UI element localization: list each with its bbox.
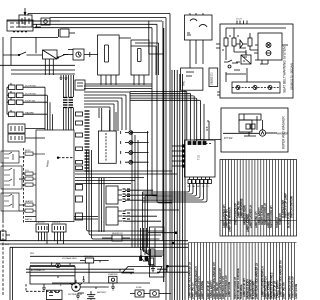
wire drop band <box>189 243 295 300</box>
wire relay drops <box>0 65 75 75</box>
wire lower mid <box>26 266 188 283</box>
svg-text:STARTER: STARTER <box>108 273 118 276</box>
connector C16 <box>25 209 36 212</box>
wire panelA internal <box>226 28 288 82</box>
indicator lamp L2 <box>125 141 149 145</box>
wire short drops center <box>141 228 156 254</box>
fusible link box <box>7 20 33 32</box>
relay K2 <box>241 55 251 64</box>
svg-text:DOOR SW: DOOR SW <box>25 86 37 88</box>
svg-text:DOOR SW: DOOR SW <box>25 94 37 96</box>
seat belt switch S3 <box>224 60 238 68</box>
svg-text:SWITCH DOOR RH: SWITCH DOOR RH <box>270 205 273 228</box>
svg-text:EARTH: EARTH <box>25 218 32 221</box>
switch row stop lamp <box>7 98 47 105</box>
svg-text:VOLTAGE REG: VOLTAGE REG <box>62 257 77 260</box>
connector table band <box>220 160 297 237</box>
connector C15 <box>25 203 36 206</box>
svg-text:MAIN: MAIN <box>45 160 50 167</box>
svg-text:BATTERY: BATTERY <box>97 291 107 294</box>
junction lower <box>167 265 169 267</box>
resistor R1 <box>224 33 228 52</box>
wiper switch unit <box>1 151 19 163</box>
stamp box SE3171 <box>209 68 218 87</box>
combination switch unit <box>1 166 22 189</box>
wire fuse out <box>11 29 59 65</box>
connector C14 <box>25 183 36 186</box>
wire ticks engine <box>58 261 131 290</box>
svg-text:IGN COIL: IGN COIL <box>84 256 94 258</box>
wire ignition feed <box>33 21 60 27</box>
tick marks panelA <box>230 35 268 64</box>
wire meter drops <box>190 40 203 68</box>
alternator box <box>30 267 75 285</box>
combination meter box <box>185 13 213 40</box>
label engine parts <box>5 233 142 296</box>
connector pin field <box>63 98 73 108</box>
svg-text:SE(B)3171: SE(B)3171 <box>210 72 214 85</box>
turn flasher unit F1 <box>106 186 122 204</box>
svg-text:SWITCH IGNITION: SWITCH IGNITION <box>291 196 294 218</box>
switch row door LH <box>7 83 45 90</box>
wire clock <box>63 50 98 58</box>
panel A top pins <box>236 19 247 25</box>
svg-text:SE(B)3172- SEDAN: SE(B)3172- SEDAN <box>290 63 294 90</box>
temp gauge unit G2 <box>119 38 149 85</box>
wire corner cluster <box>131 21 164 76</box>
antenna trapezoid <box>122 267 162 274</box>
horn H1 <box>144 258 154 265</box>
connector block CL2 <box>8 134 45 142</box>
connector row under TSI <box>188 177 211 184</box>
washer motor M2 <box>259 130 265 136</box>
svg-text:LAMP LICENSE: LAMP LICENSE <box>201 281 204 299</box>
indicator lamp L4 <box>125 160 149 164</box>
hazard flasher unit F2 <box>106 207 122 225</box>
panel seat belt warning <box>220 24 293 98</box>
panel wiper washer <box>221 108 288 152</box>
buzzer sub-box <box>258 33 282 60</box>
label TSI pins <box>187 186 209 188</box>
heater switch unit <box>1 193 19 211</box>
wire top bus <box>7 14 170 28</box>
label blocks <box>36 222 61 224</box>
wire mid verticals <box>99 131 148 247</box>
timer sub-box <box>232 82 280 93</box>
ignition coil T1 <box>80 258 109 283</box>
svg-text:HEATER: HEATER <box>25 200 34 203</box>
wire bundle left mid <box>45 87 53 130</box>
connector column mid <box>76 112 83 220</box>
distributor DS1 <box>70 280 82 292</box>
tick marks left of panel <box>216 44 220 95</box>
wire fan instrument <box>84 84 152 131</box>
wire mesh mid left <box>75 150 177 239</box>
starter motor box <box>109 276 117 283</box>
svg-text:F BLOCK: F BLOCK <box>36 222 45 224</box>
lighting switch S2 <box>3 52 43 56</box>
svg-text:LAMP SIDE MARKER: LAMP SIDE MARKER <box>229 207 232 232</box>
svg-text:GW: GW <box>187 186 191 188</box>
svg-text:LAMP FLASHER LH: LAMP FLASHER LH <box>249 205 252 228</box>
tail relay box K4 <box>181 68 203 90</box>
wire drop band rail <box>189 242 297 244</box>
diode D1 <box>236 40 247 48</box>
svg-text:SEAT BELT WARNING SYSTEM: SEAT BELT WARNING SYSTEM <box>283 46 287 93</box>
flasher relay box K3 <box>98 108 116 163</box>
indicator lamp L1 <box>125 131 149 135</box>
connector side box <box>1 231 11 240</box>
wire washer feed <box>196 121 222 140</box>
wire lamp labels ticks <box>120 131 122 164</box>
svg-text:W-R: W-R <box>30 253 35 255</box>
ground coil <box>151 265 155 272</box>
central connector pins <box>85 111 90 171</box>
connector ticks mid <box>123 189 131 221</box>
wire bundle center tall <box>172 70 185 300</box>
instrument harness box <box>36 130 74 222</box>
wire bottom horizontals <box>0 241 188 263</box>
svg-text:FUSE: FUSE <box>136 287 142 289</box>
wire distributor <box>80 286 108 288</box>
switch row hazard <box>7 87 47 116</box>
wiper motor assembly <box>239 114 261 132</box>
connector C13 <box>25 177 36 180</box>
TSI left pin marks <box>183 145 185 167</box>
junction dot mid <box>172 242 174 244</box>
resistor R3 <box>248 33 252 50</box>
ground alternator <box>42 284 46 291</box>
ignition switch lower <box>140 249 149 262</box>
fuse box small <box>75 80 85 90</box>
svg-text:J BLOCK: J BLOCK <box>52 222 61 224</box>
alternator A2 <box>30 262 75 267</box>
svg-text:BODY: BODY <box>25 150 31 152</box>
wire TSI pin drops bend left <box>143 184 208 203</box>
connector C12 <box>25 172 36 175</box>
connector block CL1 <box>8 124 45 133</box>
wire engine area <box>26 284 60 292</box>
wire TSI left pins <box>172 146 185 166</box>
svg-text:LAMP ROOM: LAMP ROOM <box>228 282 231 297</box>
svg-text:2Y 2Y: 2Y 2Y <box>236 19 242 21</box>
svg-text:LAMP REAR SIDE MARKER LH: LAMP REAR SIDE MARKER LH <box>255 263 258 299</box>
fuse holder FH1 <box>130 290 150 297</box>
svg-text:WIPER AND WASHER: WIPER AND WASHER <box>282 116 286 149</box>
battery BT1 <box>87 291 95 300</box>
svg-text:RESISTOR: RESISTOR <box>112 233 123 235</box>
regulator box <box>47 290 63 299</box>
wire bundle right of field <box>64 75 74 130</box>
label connectors left <box>25 150 34 221</box>
condenser C1 <box>83 276 85 282</box>
svg-text:LAMP ROOM: LAMP ROOM <box>295 284 298 299</box>
radio box <box>150 227 165 277</box>
fuse holder FH2 <box>150 290 171 297</box>
turn signal unit U1 <box>185 140 216 177</box>
node blocks center <box>140 257 148 261</box>
wire bundle left of TSI <box>143 192 146 251</box>
wire panelA more <box>222 50 258 82</box>
fuel gauge unit G1 <box>98 35 120 85</box>
svg-text:GB: GB <box>192 186 196 188</box>
ground marks mid top <box>60 75 68 79</box>
clock M1 <box>73 49 84 60</box>
wire bends into bottom <box>143 249 164 255</box>
table band labels <box>223 193 294 232</box>
svg-text:DISTRIBUTOR: DISTRIBUTOR <box>68 294 83 296</box>
connector C11 <box>25 152 45 155</box>
key switch contact <box>41 18 50 25</box>
ground starter <box>111 283 115 290</box>
svg-text:E: E <box>60 285 62 287</box>
label switch rows <box>25 86 37 115</box>
svg-text:ALTERNATOR: ALTERNATOR <box>31 269 45 272</box>
svg-text:INT SW: INT SW <box>224 137 233 140</box>
svg-text:T.S.I: T.S.I <box>197 155 201 160</box>
wire harness boundary <box>23 148 25 223</box>
ammeter A1 <box>60 29 75 37</box>
wire wiper internal <box>223 116 277 133</box>
fuse connector block B1 <box>36 224 49 244</box>
wire bus drops <box>152 14 172 300</box>
fuse connector block B2 <box>52 224 66 244</box>
wire fan to TSI <box>130 92 204 142</box>
svg-text:R-G: R-G <box>25 170 29 172</box>
svg-text:STOP SW: STOP SW <box>25 101 36 103</box>
wire mid rights <box>125 190 179 233</box>
starter relay <box>102 235 130 241</box>
resistor R2 <box>232 33 236 52</box>
wire lower left links <box>19 157 98 222</box>
relay K1 <box>43 50 58 66</box>
wire left drop <box>2 37 4 220</box>
wire bottom left verticals <box>10 247 13 300</box>
switch row door RH <box>7 91 47 98</box>
indicator lamp L3 <box>125 151 149 155</box>
svg-text:W-B: W-B <box>207 126 209 131</box>
svg-text:LAMP TAIL RH: LAMP TAIL RH <box>283 282 286 299</box>
svg-text:B-W: B-W <box>5 244 9 246</box>
svg-text:HAZARD: HAZARD <box>25 112 34 115</box>
switch dimmer S4 <box>57 55 68 59</box>
wire drop labels <box>189 260 298 299</box>
ground battery <box>76 293 84 299</box>
ignition switch S1 <box>19 8 32 27</box>
